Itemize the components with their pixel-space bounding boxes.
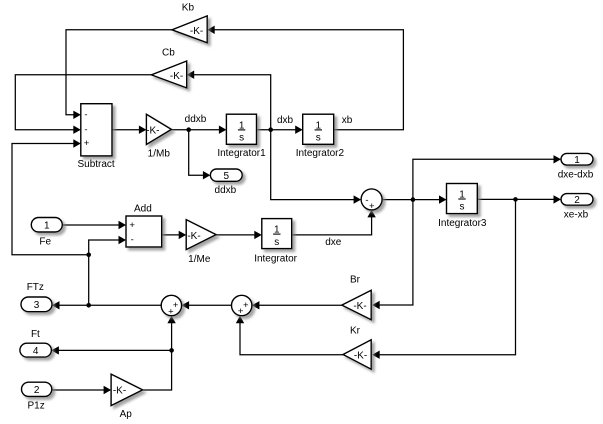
gain Br [342, 290, 371, 320]
wire dxb branch down to sum A minus input [271, 130, 361, 204]
svg-text:ddxb: ddxb [185, 114, 207, 125]
svg-text:-: - [84, 109, 87, 120]
svg-text:-K-: -K- [170, 71, 183, 82]
wire dxe: Integrator out to sum A plus input [292, 210, 376, 235]
wire Fe to Add plus input [62, 221, 126, 229]
svg-text:+: + [369, 201, 375, 212]
wire xb feedback: Integrator2 out to Kb in [207, 26, 403, 130]
svg-text:xe-xb: xe-xb [564, 209, 589, 220]
wire Ap out up to sum1 bottom input [143, 316, 176, 390]
svg-text:Br: Br [350, 274, 361, 285]
svg-text:Cb: Cb [162, 48, 175, 59]
svg-text:s: s [274, 237, 279, 248]
svg-text:Integrator: Integrator [254, 254, 297, 265]
svg-text:1/Mb: 1/Mb [148, 148, 171, 159]
node dxb junction dot [268, 127, 273, 132]
outport 4 Ft [20, 343, 52, 357]
inport 1 Fe [31, 218, 62, 233]
wire P1z to Ap [52, 386, 111, 394]
wire FTz branch up to Add minus input [89, 236, 126, 305]
svg-text:s: s [239, 132, 244, 143]
svg-text:+: + [129, 220, 135, 231]
node junction dot after Integrator3 [513, 197, 518, 202]
svg-text:Subtract: Subtract [77, 159, 114, 170]
svg-text:Add: Add [134, 203, 152, 214]
svg-text:3: 3 [34, 300, 40, 311]
gain 1/Mb [146, 114, 171, 144]
gain Kr [343, 340, 371, 369]
outport 1 dxe-dxb [561, 153, 593, 166]
svg-text:-K-: -K- [353, 301, 366, 312]
svg-text:xb: xb [342, 115, 353, 126]
wire sum2 out to sum1 [182, 301, 232, 309]
wire branch up to out port1 dxe-dxb [413, 155, 561, 200]
svg-text:-K-: -K- [146, 125, 159, 136]
svg-text:-: - [131, 234, 134, 245]
wire Add out to 1/Me [162, 231, 187, 239]
svg-text:1: 1 [574, 155, 580, 166]
svg-text:Integrator3: Integrator3 [438, 218, 487, 229]
svg-text:-K-: -K- [354, 350, 367, 361]
block Integrator1 [226, 114, 256, 144]
svg-text:Integrator1: Integrator1 [217, 148, 266, 159]
svg-text:Kb: Kb [182, 3, 195, 14]
svg-text:+: + [238, 306, 244, 317]
outport 2 xe-xb [561, 194, 593, 206]
sum A (minus plus) [361, 189, 382, 212]
sum1 (plus plus) [161, 295, 181, 317]
outport 3 FTz [21, 297, 52, 312]
svg-text:4: 4 [33, 346, 39, 357]
block Integrator3 [447, 184, 478, 214]
svg-text:-: - [84, 124, 87, 135]
wire sum A out to Integrator3 [382, 195, 446, 203]
wire Cb out to Subtract input2 [15, 75, 152, 134]
svg-text:-: - [365, 195, 368, 206]
wire 1/Mb out to Integrator1, node ddxb [171, 126, 226, 134]
wire Integrator3 out to out port2 xe-xb [477, 195, 561, 203]
svg-text:Ft: Ft [31, 329, 40, 340]
wire dxb branch up to Cb in [187, 71, 271, 130]
svg-text:-K-: -K- [187, 231, 200, 242]
svg-text:FTz: FTz [27, 282, 44, 293]
svg-text:s: s [460, 202, 465, 213]
inport 2 P1z [22, 382, 52, 396]
gain Cb [151, 61, 186, 88]
wire branch down to Br in [372, 200, 413, 310]
svg-text:+: + [168, 306, 174, 317]
svg-text:dxe: dxe [325, 237, 342, 248]
svg-text:Ap: Ap [120, 409, 133, 420]
block Integrator [262, 219, 292, 249]
svg-text:Kr: Kr [350, 326, 361, 337]
gain 1/Me [186, 220, 216, 250]
sum2 (plus plus) [232, 295, 252, 317]
wire Kb out to Subtract input1 [66, 30, 172, 119]
wire Integrator1 out to Integrator2, node dxb [257, 126, 303, 134]
svg-text:-K-: -K- [190, 26, 203, 37]
svg-text:dxe-dxb: dxe-dxb [558, 170, 594, 181]
gain Ap [111, 374, 143, 406]
svg-text:+: + [243, 300, 249, 311]
svg-text:-K-: -K- [113, 386, 126, 397]
block Add [126, 216, 162, 247]
svg-text:2: 2 [574, 195, 580, 206]
wire FTz branch to Subtract input3 [12, 139, 89, 255]
wire branch down to Kr in [372, 199, 515, 359]
gain Kb [172, 16, 207, 43]
node ddxb junction dot [186, 127, 191, 132]
outport 5 ddxb [210, 169, 242, 182]
node junction dot Ft [169, 348, 174, 353]
svg-text:P1z: P1z [27, 401, 44, 412]
svg-text:Fe: Fe [39, 237, 51, 248]
svg-text:5: 5 [224, 171, 230, 182]
node junction dot after sum A [411, 197, 416, 202]
block Integrator2 [303, 114, 334, 144]
wire Subtract out to 1/Mb [112, 126, 146, 134]
wire FTz: sum1 out to out port3 [52, 301, 161, 309]
wire Kr out to sum2 bottom input [236, 316, 343, 355]
node junction dot FTz-Subtract branch [86, 253, 91, 258]
svg-text:1: 1 [44, 220, 50, 231]
svg-text:Integrator2: Integrator2 [296, 148, 345, 159]
block Subtract [81, 104, 112, 156]
svg-text:dxb: dxb [277, 115, 294, 126]
svg-text:ddxb: ddxb [215, 185, 237, 196]
wire 1/Me out to Integrator [216, 231, 262, 239]
wire Br out to sum2 [252, 301, 342, 309]
svg-text:1/Me: 1/Me [188, 254, 211, 265]
svg-text:2: 2 [34, 385, 40, 396]
node junction dot on FTz wire [86, 303, 91, 308]
svg-text:+: + [84, 138, 90, 149]
wire ddxb branch down to port5 [189, 130, 211, 180]
svg-text:s: s [316, 132, 321, 143]
wire Ft branch to out port4 [51, 346, 171, 354]
